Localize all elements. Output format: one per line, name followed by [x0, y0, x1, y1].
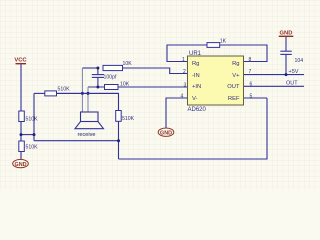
wire cap C2 leads — [285, 54, 287, 74]
wire top loop right and pin8 stub — [220, 45, 267, 62]
wire row +IN (pin3 net) — [88, 86, 188, 88]
svg-text:5: 5 — [250, 93, 253, 99]
wire cap C1 leads — [97, 68, 99, 75]
wire bias bus horizontal — [34, 140, 119, 142]
svg-text:OUT: OUT — [227, 84, 240, 90]
node bias left — [33, 133, 36, 136]
svg-text:1: 1 — [182, 57, 185, 63]
svg-text:Rg: Rg — [192, 61, 199, 67]
svg-text:V-: V- — [192, 96, 198, 102]
wire row 510K right to corner down — [57, 93, 119, 110]
node cap top — [96, 67, 99, 70]
wire R3 bottom through node to bottom bus — [118, 121, 120, 159]
wire mic left lead — [81, 68, 83, 112]
svg-text:GND: GND — [15, 162, 27, 168]
svg-text:V+: V+ — [232, 73, 240, 79]
node R3 bus — [117, 139, 120, 142]
wire VCC stem — [20, 64, 22, 111]
op-amp U1 AD620 body — [188, 56, 244, 105]
node cap bottom — [96, 86, 99, 89]
svg-text:-IN: -IN — [192, 73, 200, 79]
svg-text:510K: 510K — [122, 116, 135, 122]
wire x34 vertical from 510K row to bias bus — [33, 93, 35, 140]
junction node dots — [20, 67, 288, 143]
svg-text:REF: REF — [228, 96, 240, 102]
wire pin7 +5V — [244, 74, 305, 76]
wire row -IN (pin2 net) — [82, 67, 98, 69]
wire node A horizontal — [21, 134, 34, 136]
sheet background — [0, 0, 320, 190]
ground GND (below pin4) — [158, 128, 174, 136]
svg-text:10K: 10K — [123, 61, 133, 67]
svg-text:7: 7 — [249, 69, 252, 75]
wire pin1 stub and top loop left — [167, 45, 207, 62]
wire pin4 V- to ground — [166, 98, 188, 128]
ground GND (bottom left) — [13, 159, 29, 167]
power port GND (top right, above C2) — [279, 31, 294, 37]
resistor R5 10K horizontal body (pin2 row) — [103, 65, 123, 70]
svg-text:6: 6 — [250, 82, 253, 88]
svg-text:104: 104 — [295, 58, 304, 64]
power port VCC — [14, 57, 27, 63]
node VCC divider mid — [20, 133, 23, 136]
svg-text:100pf: 100pf — [104, 75, 118, 81]
svg-text:VCC: VCC — [14, 57, 27, 63]
resistor R3 510K vertical body — [116, 111, 122, 122]
resistor R6 10K horizontal body (pin3 row) — [105, 85, 119, 90]
wire bias row between dots — [57, 92, 119, 94]
wire pin6 OUT — [244, 85, 305, 87]
svg-text:UR1: UR1 — [189, 51, 202, 57]
wire bottom bus to REF — [119, 98, 268, 159]
capacitor C2 104 plates — [280, 51, 292, 54]
wire row 510K left lead — [34, 92, 45, 94]
node mic right on bias row — [87, 92, 90, 95]
resistor R2 510K vertical body — [19, 141, 25, 152]
svg-text:AD620: AD620 — [188, 107, 207, 113]
svg-text:+5V: +5V — [289, 69, 299, 75]
svg-text:OUT: OUT — [286, 81, 298, 87]
svg-text:2: 2 — [183, 69, 186, 75]
svg-text:8: 8 — [249, 57, 252, 63]
svg-text:+IN: +IN — [192, 84, 201, 90]
capacitor C1 100pf plates — [92, 75, 104, 78]
wire pin5 REF stub — [244, 97, 268, 99]
wire R2 leads — [20, 135, 22, 141]
node +5V cap — [285, 73, 288, 76]
svg-text:GND: GND — [160, 130, 172, 136]
svg-text:Rg: Rg — [232, 61, 239, 67]
svg-text:510K: 510K — [58, 87, 71, 93]
microphone (receive) transducer — [75, 112, 104, 129]
wire R1 bottom to node — [20, 122, 22, 135]
svg-text:510K: 510K — [26, 117, 39, 123]
svg-text:3: 3 — [184, 82, 187, 88]
resistor R4 510K horizontal body — [45, 91, 57, 96]
svg-text:1K: 1K — [220, 39, 227, 45]
resistor R7 1K top feedback body — [207, 43, 220, 48]
svg-text:receive: receive — [77, 132, 95, 138]
svg-text:510K: 510K — [26, 145, 39, 151]
wire mic right lead — [87, 87, 89, 112]
node mic left on bias row — [81, 92, 84, 95]
resistor R1 510K vertical body — [19, 111, 25, 122]
svg-text:4: 4 — [181, 93, 184, 99]
svg-text:10K: 10K — [120, 81, 130, 87]
